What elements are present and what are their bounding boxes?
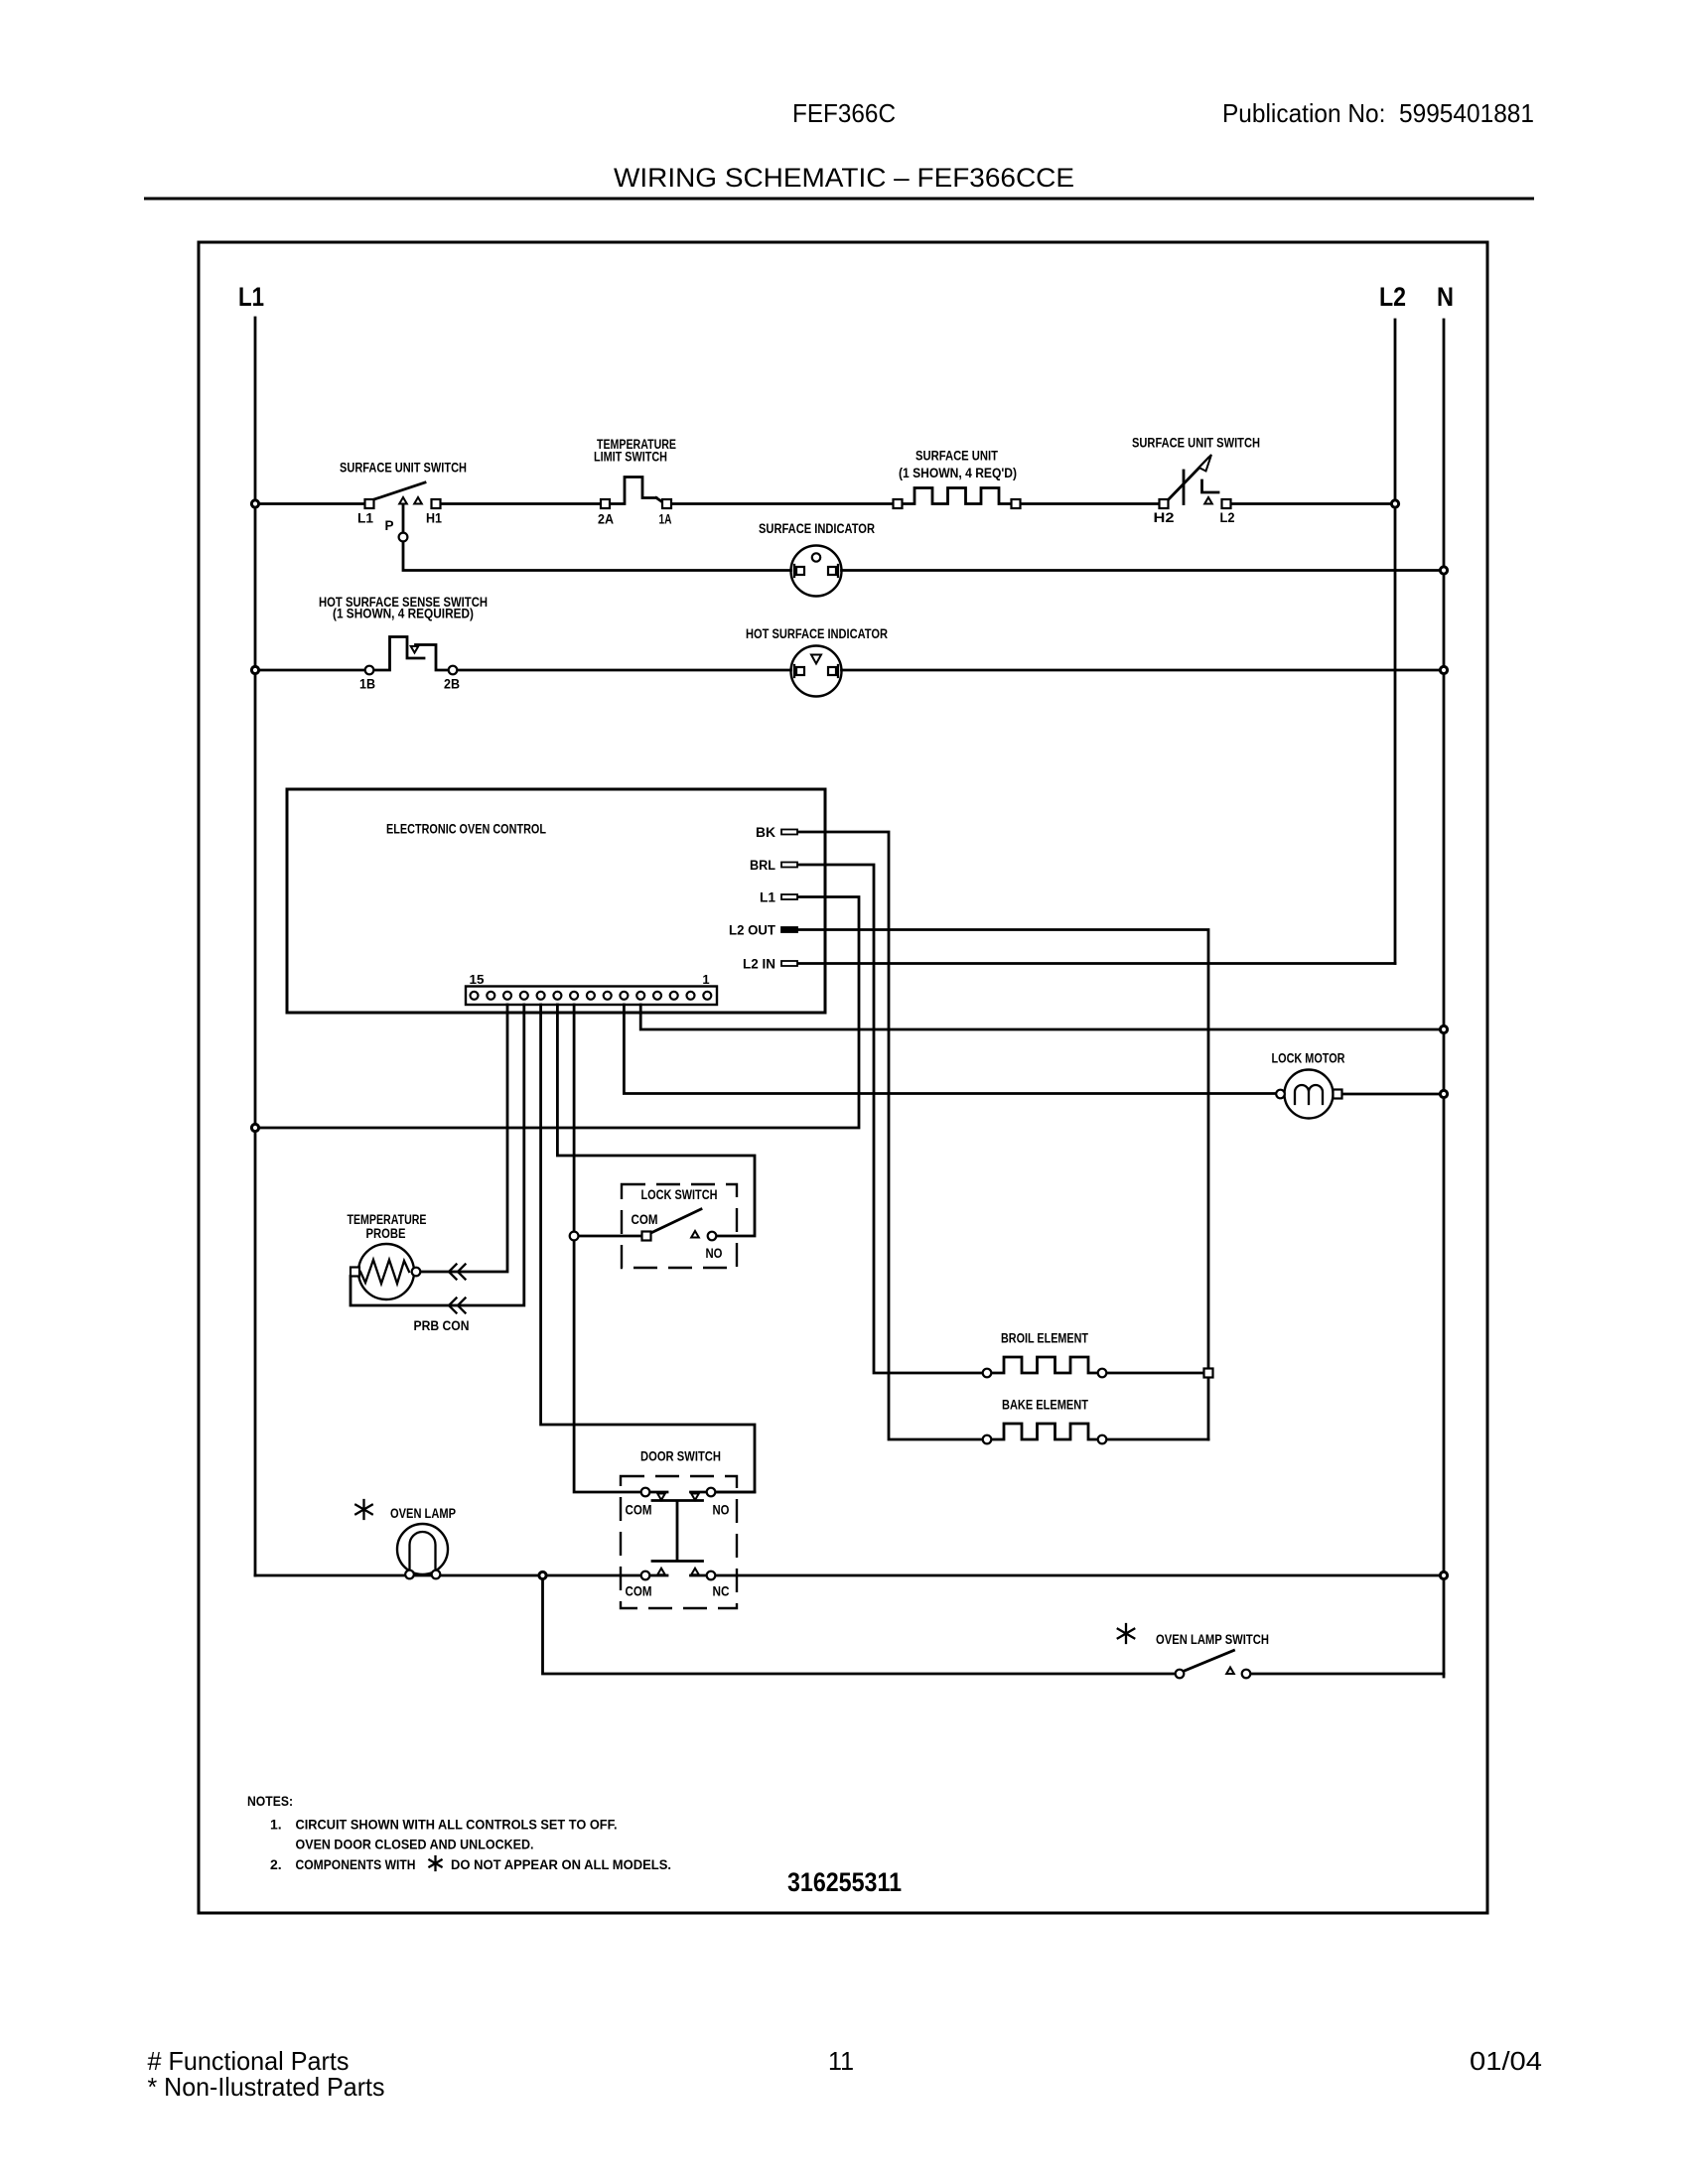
- svg-text:PROBE: PROBE: [366, 1226, 406, 1241]
- svg-text:1.: 1.: [270, 1817, 282, 1833]
- svg-text:LOCK MOTOR: LOCK MOTOR: [1272, 1051, 1345, 1066]
- svg-text:NO: NO: [713, 1503, 730, 1518]
- svg-text:DO NOT APPEAR ON ALL MODELS.: DO NOT APPEAR ON ALL MODELS.: [451, 1856, 671, 1872]
- svg-text:NC: NC: [713, 1584, 730, 1599]
- svg-text:(1 SHOWN, 4 REQ'D): (1 SHOWN, 4 REQ'D): [899, 466, 1017, 480]
- svg-text:2.: 2.: [270, 1856, 282, 1872]
- svg-text:WIRING SCHEMATIC – FEF366CCE: WIRING SCHEMATIC – FEF366CCE: [614, 163, 1074, 193]
- svg-text:L2: L2: [1379, 282, 1406, 312]
- svg-text:L1: L1: [357, 511, 373, 526]
- svg-text:L1: L1: [238, 282, 264, 312]
- svg-text:BAKE ELEMENT: BAKE ELEMENT: [1002, 1398, 1089, 1413]
- svg-text:TEMPERATURE: TEMPERATURE: [348, 1212, 427, 1227]
- svg-text:NOTES:: NOTES:: [247, 1793, 293, 1809]
- svg-text:1A: 1A: [659, 512, 672, 527]
- svg-text:LIMIT SWITCH: LIMIT SWITCH: [594, 450, 667, 465]
- svg-text:OVEN LAMP: OVEN LAMP: [390, 1506, 456, 1521]
- svg-text:FEF366C: FEF366C: [792, 98, 896, 128]
- svg-text:1: 1: [702, 972, 709, 987]
- svg-text:(1 SHOWN, 4 REQUIRED): (1 SHOWN, 4 REQUIRED): [333, 607, 474, 621]
- svg-text:* Non-Ilustrated Parts: * Non-Ilustrated Parts: [148, 2072, 385, 2102]
- svg-text:BROIL ELEMENT: BROIL ELEMENT: [1001, 1331, 1089, 1346]
- svg-text:NO: NO: [706, 1246, 723, 1261]
- svg-text:H2: H2: [1154, 510, 1175, 525]
- svg-text:316255311: 316255311: [787, 1867, 902, 1897]
- svg-text:Publication No: 5995401881: Publication No: 5995401881: [1222, 98, 1534, 128]
- svg-text:2B: 2B: [444, 677, 460, 692]
- svg-text:1B: 1B: [359, 677, 375, 692]
- svg-text:SURFACE UNIT: SURFACE UNIT: [915, 449, 999, 464]
- svg-text:COMPONENTS WITH: COMPONENTS WITH: [296, 1856, 416, 1872]
- svg-text:L1: L1: [760, 890, 775, 905]
- svg-text:SURFACE UNIT SWITCH: SURFACE UNIT SWITCH: [340, 461, 467, 476]
- svg-text:11: 11: [828, 2046, 854, 2076]
- svg-text:SURFACE UNIT SWITCH: SURFACE UNIT SWITCH: [1132, 436, 1260, 451]
- svg-text:ELECTRONIC OVEN CONTROL: ELECTRONIC OVEN CONTROL: [386, 822, 546, 837]
- svg-text:P: P: [384, 518, 393, 533]
- svg-text:OVEN DOOR CLOSED AND UNLOCKED.: OVEN DOOR CLOSED AND UNLOCKED.: [296, 1837, 534, 1852]
- svg-text:PRB CON: PRB CON: [414, 1318, 470, 1333]
- svg-text:15: 15: [470, 972, 485, 987]
- svg-text:CIRCUIT SHOWN WITH ALL CONTROL: CIRCUIT SHOWN WITH ALL CONTROLS SET TO O…: [296, 1817, 618, 1833]
- svg-text:SURFACE INDICATOR: SURFACE INDICATOR: [759, 521, 875, 536]
- svg-text:HOT SURFACE INDICATOR: HOT SURFACE INDICATOR: [746, 626, 888, 641]
- svg-text:L2 IN: L2 IN: [743, 957, 775, 972]
- svg-text:BK: BK: [756, 825, 775, 840]
- svg-text:DOOR SWITCH: DOOR SWITCH: [640, 1449, 721, 1464]
- svg-text:L2 OUT: L2 OUT: [729, 923, 776, 938]
- svg-text:OVEN LAMP SWITCH: OVEN LAMP SWITCH: [1156, 1632, 1269, 1647]
- svg-text:01/04: 01/04: [1470, 2046, 1542, 2076]
- svg-text:COM: COM: [626, 1503, 652, 1518]
- svg-text:COM: COM: [626, 1584, 652, 1599]
- svg-text:BRL: BRL: [750, 858, 775, 873]
- svg-text:L2: L2: [1220, 510, 1235, 525]
- svg-text:N: N: [1437, 282, 1454, 312]
- svg-text:COM: COM: [632, 1212, 658, 1227]
- svg-text:LOCK SWITCH: LOCK SWITCH: [641, 1187, 718, 1202]
- svg-text:2A: 2A: [598, 512, 614, 527]
- svg-text:H1: H1: [426, 511, 442, 526]
